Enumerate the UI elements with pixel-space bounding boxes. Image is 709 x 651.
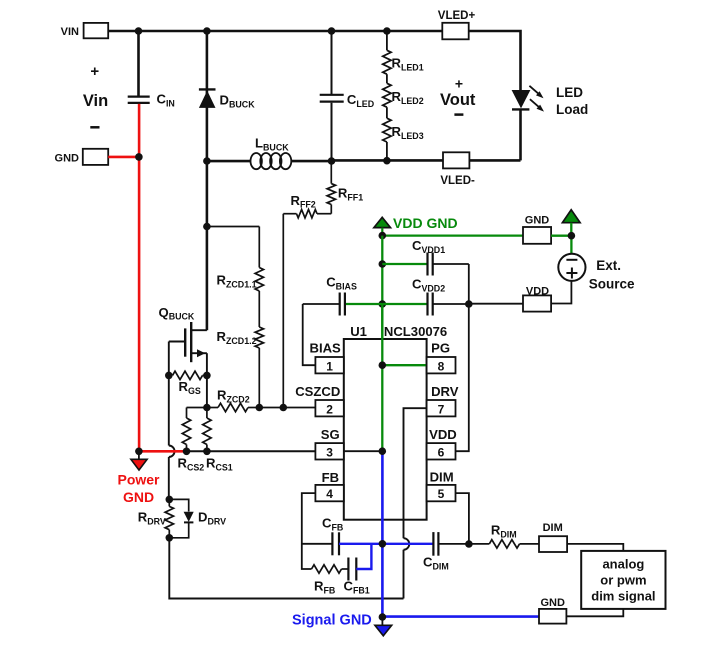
wire blue C_FB row [339, 543, 433, 545]
resistor R_CS2 [178, 408, 207, 473]
inductor L_BUCK [251, 136, 292, 170]
node VDD GND [379, 232, 387, 240]
svg-text:GND: GND [123, 489, 154, 505]
terminal VIN [61, 23, 109, 38]
node PG junction [379, 361, 387, 369]
node Power GND [135, 448, 143, 456]
svg-text:GND: GND [540, 597, 565, 609]
node R_CS2 bottom [183, 448, 191, 456]
wire LED cathode to VLED- [469, 159, 520, 162]
wire R_ZCD1.1 to R_ZCD1.2 [258, 291, 260, 327]
svg-text:VLED-: VLED- [440, 175, 475, 187]
wire L_BUCK to C_LED node [291, 160, 331, 163]
node C_VDD1 row [379, 260, 387, 268]
node R_LED bottom [383, 157, 391, 165]
resistor R_LED3 [383, 107, 424, 160]
capacitor C_IN [128, 31, 175, 108]
pin 8 PG [427, 341, 456, 374]
node R_CS1 bottom [203, 448, 211, 456]
wire DIM to dim-signal box [567, 544, 623, 551]
label LED Load [556, 85, 588, 117]
pin 7 DRV [427, 384, 459, 417]
resistor R_GS [169, 371, 207, 396]
wire red C_IN to Power GND [138, 104, 141, 451]
wire gate net down (hop over red) [169, 375, 175, 499]
wire pin DRV to gate-drive run [404, 408, 427, 598]
node R_DRV top [166, 496, 174, 504]
wire blue C_FB1 to row [356, 544, 371, 569]
ground Ext Source [562, 210, 580, 232]
svg-text:LED: LED [556, 85, 583, 100]
pin 2 CSZCD [295, 384, 344, 417]
wire GND to dim-signal box [566, 609, 623, 616]
svg-text:Vin: Vin [83, 92, 108, 110]
terminal GND (input) [55, 149, 109, 165]
capacitor C_BIAS [303, 275, 383, 316]
wire green to pin PG [382, 364, 426, 366]
node D_BUCK top [203, 27, 211, 35]
wire pin SG to junction [344, 450, 383, 452]
wire VDD to C_VDD node [469, 303, 523, 305]
terminal GND (ext source) [523, 215, 551, 244]
label − (Vin polarity) [90, 126, 99, 129]
resistor R_DRV [138, 499, 174, 537]
svg-text:GND: GND [55, 152, 80, 164]
resistor R_FF1 [327, 161, 363, 214]
node VDD junction [465, 300, 473, 308]
pin 1 BIAS [310, 341, 344, 374]
resistor R_DIM [469, 523, 539, 548]
svg-text:GND: GND [525, 215, 550, 227]
node blue row junction [379, 540, 387, 548]
wire red GND terminal [108, 156, 139, 159]
wire green column [381, 236, 383, 452]
terminal VLED- [440, 152, 475, 187]
node R_FF2 / CSZCD [280, 404, 288, 412]
node R_CS top [203, 404, 211, 412]
wire top rail VIN to VLED+ [108, 30, 442, 33]
svg-text:+: + [455, 75, 463, 91]
svg-text:VDD: VDD [429, 427, 457, 442]
capacitor C_VDD1 [382, 238, 469, 304]
svg-text:dim signal: dim signal [591, 589, 655, 604]
capacitor C_FB1 [344, 558, 370, 596]
wire Ext Source to VDD [551, 281, 571, 304]
node SG junction [379, 447, 387, 455]
wire to pin CSZCD [259, 407, 315, 409]
wire D_BUCK to L_BUCK [207, 160, 251, 163]
wire D_BUCK to Q_BUCK drain [206, 161, 209, 330]
svg-text:BIAS: BIAS [310, 341, 342, 356]
diode D_BUCK [199, 31, 255, 161]
node C_LED top [328, 27, 336, 35]
node R_LED top [383, 27, 391, 35]
node C_LED bottom [328, 157, 336, 165]
pin 3 SG [315, 427, 343, 460]
svg-text:DIM: DIM [543, 522, 563, 534]
svg-text:7: 7 [438, 402, 445, 416]
svg-text:1: 1 [326, 359, 333, 373]
wire blue signal gnd column [381, 451, 384, 617]
LED arrows [529, 86, 544, 112]
svg-text:Vout: Vout [440, 91, 476, 109]
node C_IN top [135, 27, 143, 35]
svg-text:FB: FB [322, 470, 339, 485]
transistor Q_BUCK [159, 305, 207, 376]
svg-text:Power: Power [117, 471, 160, 487]
pin 6 VDD [427, 427, 457, 460]
svg-text:4: 4 [326, 487, 333, 501]
svg-text:VDD GND: VDD GND [393, 215, 458, 231]
wire green VDD GND rail [382, 234, 523, 236]
svg-text:Signal GND: Signal GND [292, 613, 372, 629]
svg-text:VLED+: VLED+ [438, 10, 476, 22]
wire gate net to R_DRV [168, 498, 171, 500]
source Ext. Source [558, 254, 635, 292]
wire pin FB loop [302, 493, 316, 569]
terminal VDD [523, 286, 551, 312]
svg-text:Ext.: Ext. [596, 258, 621, 273]
svg-text:PG: PG [431, 341, 450, 356]
svg-text:+: + [90, 63, 99, 80]
svg-text:NCL30076: NCL30076 [384, 324, 447, 339]
svg-text:6: 6 [438, 445, 445, 459]
ground VDD GND [374, 215, 458, 236]
node GND input junction [135, 153, 143, 161]
pin 4 FB [315, 470, 343, 501]
ground Power GND [117, 453, 160, 505]
analog/pwm dim signal box [581, 551, 665, 609]
node gate/R_GS left [165, 372, 173, 380]
node D_BUCK bottom [203, 157, 211, 165]
label + (Vin polarity) [90, 63, 99, 80]
wire green inside IC [381, 304, 383, 451]
svg-text:SG: SG [321, 427, 340, 442]
wire R_LED bottom to C_LED node [332, 159, 387, 162]
svg-text:Load: Load [556, 102, 588, 117]
wire VLED+ to LED anode [469, 31, 521, 91]
terminal GND (dim signal) [539, 597, 566, 623]
terminal VLED+ [438, 10, 476, 39]
resistor R_ZCD1.1 [217, 268, 264, 292]
ground Signal GND [292, 613, 392, 636]
wire to R_ZCD1.1 [207, 227, 259, 268]
wire red Power GND row [139, 450, 186, 453]
svg-text:8: 8 [438, 359, 445, 373]
wire R_FF2 to CSZCD node [282, 214, 284, 408]
wire source to R_CS row [206, 375, 208, 407]
wire bottom gate-drive run [169, 538, 403, 599]
resistor R_LED1 [383, 31, 424, 74]
pin 5 DIM [427, 470, 456, 502]
svg-text:2: 2 [326, 402, 333, 416]
label Vout [440, 91, 476, 109]
svg-text:DRV: DRV [431, 384, 459, 399]
svg-text:VIN: VIN [61, 26, 79, 38]
node source/R_GS right [203, 372, 211, 380]
resistor R_ZCD2 [207, 388, 259, 412]
wire pin DIM down [456, 493, 469, 544]
capacitor C_VDD2 [382, 277, 469, 316]
node R_ZCD tap [203, 223, 211, 231]
capacitor C_LED [320, 31, 375, 161]
node C_DIM / DIM pin [465, 540, 473, 548]
resistor R_FB [312, 565, 349, 596]
node Signal GND [379, 613, 387, 621]
wire VLED- to L_BUCK rail [387, 159, 443, 162]
diode D_DRV [169, 499, 226, 537]
terminal DIM [539, 522, 567, 552]
node C_BIAS row [379, 300, 387, 308]
wire GND to Ext Source [551, 236, 571, 254]
resistor R_LED2 [383, 74, 424, 107]
node R_ZCD1 bottom [255, 404, 263, 412]
svg-text:U1: U1 [350, 324, 367, 339]
node R_DRV bottom [166, 534, 174, 542]
svg-text:or pwm: or pwm [600, 573, 646, 588]
wire blue signal gnd bottom [382, 615, 539, 618]
svg-text:Source: Source [589, 277, 635, 292]
svg-text:VDD: VDD [526, 286, 549, 298]
resistor R_CS1 [203, 408, 233, 473]
capacitor C_FB [302, 516, 344, 556]
wire C_BIAS to pin BIAS [303, 304, 316, 365]
capacitor C_DIM [423, 532, 469, 571]
svg-text:5: 5 [438, 487, 445, 501]
resistor R_FF2 [283, 193, 331, 218]
LED load diode [512, 90, 531, 160]
label + (Vout) [455, 75, 463, 91]
resistor R_ZCD1.2 [217, 327, 264, 408]
svg-text:3: 3 [326, 445, 333, 459]
op-amp U1 NCL30076 body [344, 324, 447, 520]
svg-text:analog: analog [602, 557, 644, 572]
node Ext Source top [568, 232, 576, 240]
wire R_CS bottoms to SG pin [187, 450, 316, 452]
svg-text:DIM: DIM [430, 470, 454, 485]
svg-text:CSZCD: CSZCD [295, 384, 340, 399]
label − (Vout) [454, 113, 463, 116]
wire pin VDD up [456, 304, 469, 451]
label Vin [83, 92, 108, 110]
